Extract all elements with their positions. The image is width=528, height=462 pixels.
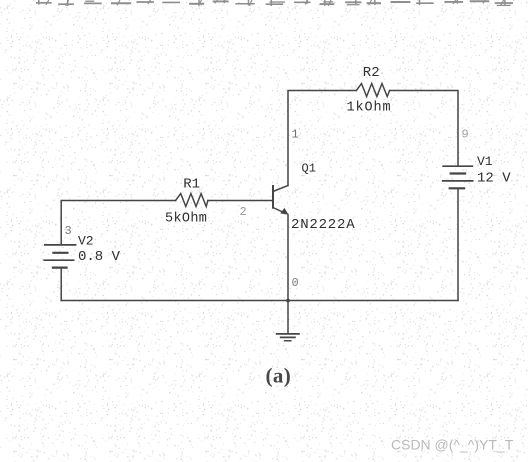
wire: ground stub: [287, 301, 289, 334]
battery V1: [442, 166, 474, 188]
svg-text:V1: V1: [477, 154, 493, 169]
wire: base rail right of R1 to transistor base: [208, 200, 273, 202]
ground: [276, 334, 300, 341]
svg-text:V2: V2: [78, 234, 94, 249]
wire: V2 negative terminal down to bottom rail: [60, 268, 62, 301]
svg-text:0.8 V: 0.8 V: [78, 249, 121, 265]
node 0 junction: [286, 299, 290, 303]
svg-text:1: 1: [292, 128, 299, 142]
svg-text:(a): (a): [266, 364, 292, 388]
wire: top rail left of R2 (collector corner to R2): [288, 91, 356, 186]
svg-text:R2: R2: [363, 65, 380, 81]
svg-text:0: 0: [292, 276, 299, 290]
svg-text:12 V: 12 V: [477, 171, 511, 187]
svg-text:9: 9: [462, 128, 469, 142]
svg-text:Q1: Q1: [302, 162, 316, 176]
svg-text:3: 3: [65, 224, 72, 238]
svg-text:2: 2: [240, 205, 247, 219]
resistor R1: [176, 194, 208, 207]
transistor Q1: [273, 185, 289, 215]
wire: bottom rail: [61, 300, 458, 302]
clipped heading text (bottom edge of Chinese characters, cut off at top): [36, 0, 513, 6]
svg-text:CSDN @(^_^)YT_T: CSDN @(^_^)YT_T: [391, 437, 514, 453]
svg-text:2N2222A: 2N2222A: [291, 217, 355, 233]
svg-text:1kOhm: 1kOhm: [347, 101, 392, 116]
wire: base rail left of R1 from node 3 corner: [61, 201, 175, 245]
wire: V1 negative terminal down and bottom rail right corner: [457, 189, 459, 301]
svg-text:R1: R1: [183, 177, 200, 193]
svg-text:5kOhm: 5kOhm: [165, 212, 207, 227]
wire: emitter down to bottom rail: [287, 215, 289, 301]
wire: top rail right of R2 to V1 positive terminal: [390, 91, 458, 167]
battery V2: [43, 245, 76, 268]
resistor R2: [356, 84, 389, 97]
